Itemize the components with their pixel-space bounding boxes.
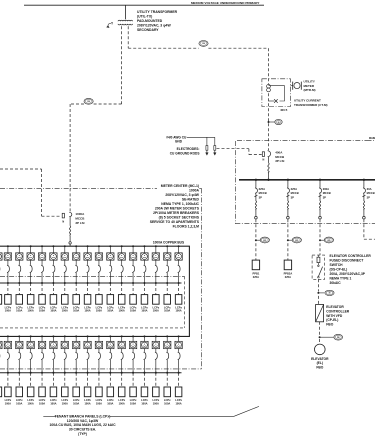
junction bottom bus tap col32 xyxy=(166,335,168,337)
wire feeder (dashed) xyxy=(166,283,168,295)
feeder tag oval xyxy=(292,237,301,243)
wire xyxy=(208,47,268,49)
main switchboard boundary bottom xyxy=(235,223,375,225)
breaker 2P/100A col28 xyxy=(121,352,123,360)
svg-text:100A: 100A xyxy=(130,401,136,405)
svg-text:(UTIL-TX): (UTIL-TX) xyxy=(137,14,152,18)
wire to elevator disconnect (dashed) xyxy=(319,243,321,255)
junction bus tap col7 xyxy=(64,245,66,247)
panel LCP8 xyxy=(73,295,80,305)
svg-text:100A: 100A xyxy=(28,309,34,313)
panel LCP17 xyxy=(175,295,182,305)
breaker 2P/100A col9 xyxy=(87,265,89,273)
boundary xyxy=(199,187,201,189)
wire xyxy=(69,217,71,226)
wire to panel (dashed) xyxy=(287,243,289,260)
wire xyxy=(75,273,77,283)
junction bus tap x=255.9 xyxy=(255,179,257,181)
wire xyxy=(255,210,257,216)
panel LCP24 xyxy=(73,387,80,397)
wire xyxy=(132,273,134,283)
neutral lug N at meter center xyxy=(62,213,64,218)
svg-text:1000A: 1000A xyxy=(75,212,85,216)
wire feeder (dashed) xyxy=(18,373,20,387)
svg-text:SWITCH: SWITCH xyxy=(330,263,344,267)
svg-text:TRANSFORMER (CT-M): TRANSFORMER (CT-M) xyxy=(294,103,328,107)
junction xyxy=(41,282,43,284)
wire xyxy=(319,210,321,216)
wire xyxy=(87,246,89,253)
meter socket M32 xyxy=(164,341,171,348)
svg-text:2P/100A METER BREAKERS: 2P/100A METER BREAKERS xyxy=(153,211,200,215)
breaker feeder 1 225A hook xyxy=(255,188,257,193)
junction xyxy=(121,372,123,374)
svg-text:UTILITY TRANSFORMER: UTILITY TRANSFORMER xyxy=(137,10,178,14)
junction bus tap col10 xyxy=(98,245,100,247)
junction xyxy=(166,372,168,374)
panel LCP6 xyxy=(50,295,57,305)
svg-text:FBO: FBO xyxy=(316,366,323,370)
feeder tag oval xyxy=(199,41,208,47)
meter socket M19 xyxy=(16,341,23,348)
meter socket M1 xyxy=(0,253,2,260)
wire xyxy=(18,260,20,265)
svg-text:FUSED DISCONNECT: FUSED DISCONNECT xyxy=(330,259,364,263)
wire xyxy=(52,260,54,265)
junction bottom bus tap col28 xyxy=(121,335,123,337)
panel LCP1 xyxy=(0,295,2,305)
svg-text:225A: 225A xyxy=(291,187,297,191)
breaker 400A MCCB hook xyxy=(268,151,271,157)
svg-text:SE-RATED: SE-RATED xyxy=(182,198,200,202)
svg-text:225A: 225A xyxy=(285,275,291,279)
wire xyxy=(18,273,20,283)
panel LCP4 xyxy=(27,295,34,305)
wire xyxy=(41,260,43,265)
svg-text:(CP-EL): (CP-EL) xyxy=(326,318,338,322)
ground rod electrode at x=206.9 xyxy=(206,146,208,151)
svg-text:30kAIC: 30kAIC xyxy=(330,281,342,285)
wire tag leader xyxy=(269,121,275,123)
wire xyxy=(121,260,123,265)
wire feeder drop (dashed) xyxy=(287,219,289,238)
svg-text:200A: 200A xyxy=(323,187,329,191)
svg-text:LCPx: LCPx xyxy=(153,398,160,402)
svg-text:LCPx: LCPx xyxy=(130,398,137,402)
breaker 2P/100A col16 xyxy=(166,265,168,273)
svg-text:LCPx: LCPx xyxy=(16,305,23,309)
wire xyxy=(206,137,208,145)
breaker 2P/100A col32 xyxy=(166,352,168,360)
svg-text:400A: 400A xyxy=(275,150,283,154)
wire tag leader xyxy=(256,239,260,241)
meter socket M2 xyxy=(4,253,11,260)
svg-text:30: 30 xyxy=(329,293,331,295)
terminal circle xyxy=(255,216,258,219)
wire xyxy=(166,273,168,283)
wire xyxy=(363,210,365,216)
wire xyxy=(18,336,20,341)
wire xyxy=(41,169,43,216)
elevator controller VFD box CP-EL xyxy=(316,305,324,322)
junction bottom bus tap col31 xyxy=(155,335,157,337)
breaker 2P/100A col15 xyxy=(155,265,157,273)
ground rod electrode at x=214.8 xyxy=(214,146,216,151)
wire (dashed) xyxy=(319,322,321,336)
svg-text:100A: 100A xyxy=(84,309,90,313)
meter socket M17 xyxy=(175,253,182,260)
meter socket M16 xyxy=(164,253,171,260)
wire xyxy=(30,349,32,352)
panel LCP17 xyxy=(0,387,2,397)
wire xyxy=(7,273,9,283)
wire tag leader xyxy=(318,292,324,294)
svg-text:100A: 100A xyxy=(73,309,79,313)
svg-text:METER: METER xyxy=(304,84,315,88)
wire xyxy=(287,210,289,216)
wire xyxy=(143,246,145,253)
wire xyxy=(178,360,180,373)
svg-text:LCPx: LCPx xyxy=(175,398,182,402)
neutral lug N at switchboard xyxy=(262,152,264,157)
junction xyxy=(18,372,20,374)
junction xyxy=(18,282,20,284)
wire xyxy=(143,273,145,283)
switch contact xyxy=(318,265,320,267)
wire xyxy=(18,246,20,253)
svg-text:FLOORS 1,2,3,M: FLOORS 1,2,3,M xyxy=(173,225,200,229)
wire xyxy=(155,273,157,283)
junction xyxy=(166,282,168,284)
wire xyxy=(178,273,180,283)
wire CT secondary xyxy=(269,86,285,101)
meter socket M20 xyxy=(27,341,34,348)
junction xyxy=(87,372,89,374)
meter socket M26 xyxy=(95,341,102,348)
wire grounding electrode conductor xyxy=(187,136,215,138)
breaker 2P/100A col14 xyxy=(144,265,146,273)
wire xyxy=(7,336,9,341)
junction xyxy=(64,372,66,374)
wire feeder (dashed) xyxy=(64,373,66,387)
junction bottom bus tap col25 xyxy=(87,335,89,337)
wire xyxy=(363,194,365,202)
wire neutral/ground bond (dashed) xyxy=(0,168,42,170)
wire feeder (dashed) xyxy=(155,373,157,387)
svg-text:MEDIUM VOLTAGE UNDERGROUND PRI: MEDIUM VOLTAGE UNDERGROUND PRIMARY xyxy=(191,1,260,5)
wire xyxy=(87,273,89,283)
junction xyxy=(75,282,77,284)
wire xyxy=(41,273,43,283)
svg-text:LCPx: LCPx xyxy=(164,305,171,309)
wire xyxy=(69,235,71,241)
junction bottom bus tap col21 xyxy=(41,335,43,337)
svg-text:3P LSI: 3P LSI xyxy=(275,159,284,163)
wire feeder (dashed) xyxy=(132,283,134,295)
breaker 2P/100A col24 xyxy=(75,352,77,360)
wire xyxy=(248,149,250,155)
svg-text:FBO: FBO xyxy=(326,323,333,327)
svg-text:100A: 100A xyxy=(107,309,113,313)
wire xyxy=(52,273,54,283)
junction xyxy=(87,282,89,284)
wire xyxy=(75,336,77,341)
utility transformer UTIL-T primary winding xyxy=(118,20,133,21)
wire feeder to main switchboard xyxy=(268,48,270,150)
wire xyxy=(87,360,89,373)
wire xyxy=(249,154,262,156)
wire feeder (dashed) xyxy=(98,373,100,387)
svg-text:225: 225 xyxy=(263,240,266,242)
wire xyxy=(109,360,111,373)
wire (dashed) xyxy=(69,188,71,212)
svg-text:(8) 5 SOCKET SECTIONS: (8) 5 SOCKET SECTIONS xyxy=(159,216,200,220)
svg-text:120: 120 xyxy=(87,101,90,103)
meter socket M11 xyxy=(107,253,114,260)
junction bus tap col5 xyxy=(41,245,43,247)
wire xyxy=(319,180,321,188)
wire xyxy=(64,349,66,352)
meter socket M5 xyxy=(38,253,45,260)
svg-text:100A: 100A xyxy=(119,309,125,313)
junction tag point xyxy=(319,239,321,241)
svg-text:MCCB: MCCB xyxy=(291,191,299,195)
svg-text:LCPx: LCPx xyxy=(118,305,125,309)
junction bus tap col6 xyxy=(52,245,54,247)
wire feeder drop (dashed) xyxy=(255,219,257,238)
svg-text:TENANT BRANCH PANELS (LCPx): TENANT BRANCH PANELS (LCPx) xyxy=(55,414,111,418)
fuse X symbol xyxy=(274,99,278,103)
svg-text:N: N xyxy=(62,221,64,224)
breaker 2P/100A col8 xyxy=(75,265,77,273)
svg-text:100A: 100A xyxy=(16,401,22,405)
tick xyxy=(319,195,322,197)
junction xyxy=(121,282,123,284)
svg-text:100A: 100A xyxy=(164,401,170,405)
junction xyxy=(52,372,54,374)
svg-text:LCPx: LCPx xyxy=(141,305,148,309)
wire feeder (dashed) xyxy=(87,373,89,387)
svg-text:LCPx: LCPx xyxy=(50,398,57,402)
breaker 2P/100A col7 xyxy=(64,265,66,273)
svg-text:100A: 100A xyxy=(164,309,170,313)
junction xyxy=(132,282,134,284)
wire xyxy=(132,246,134,253)
junction xyxy=(109,372,111,374)
breaker 2P/100A col26 xyxy=(98,352,100,360)
wire xyxy=(98,360,100,373)
wire xyxy=(52,360,54,373)
svg-text:METER CENTER (MC-1): METER CENTER (MC-1) xyxy=(161,184,199,188)
panel LCP22 xyxy=(50,387,57,397)
meter socket M30 xyxy=(141,341,148,348)
wire xyxy=(109,349,111,352)
wire (dashed) xyxy=(319,339,321,344)
leader line xyxy=(234,406,259,416)
meter socket M12 xyxy=(118,253,125,260)
svg-text:PPB1: PPB1 xyxy=(253,272,260,276)
junction xyxy=(155,282,157,284)
junction bus tap x=320.0 xyxy=(319,179,321,181)
svg-text:100A: 100A xyxy=(96,309,102,313)
svg-text:100A: 100A xyxy=(153,309,159,313)
wire xyxy=(41,246,43,253)
wire feeder (dashed) xyxy=(18,283,20,295)
svg-text:LCPx: LCPx xyxy=(39,305,46,309)
junction bottom bus tap col30 xyxy=(143,335,145,337)
svg-text:LCPx: LCPx xyxy=(107,398,114,402)
meter center boundary right xyxy=(201,188,203,369)
meter socket M24 xyxy=(72,341,79,348)
panel LCP31 xyxy=(153,387,160,397)
wire feeder (dashed) xyxy=(52,373,54,387)
junction bus tap col12 xyxy=(121,245,123,247)
svg-text:ELEVATOR: ELEVATOR xyxy=(311,357,329,361)
meter socket M28 xyxy=(118,341,125,348)
panel LCP25 xyxy=(84,387,91,397)
svg-text:MCCB: MCCB xyxy=(275,155,285,159)
breaker 2P/100A col19 xyxy=(18,352,20,360)
junction bus tap col11 xyxy=(109,245,111,247)
svg-text:225: 225 xyxy=(295,240,298,242)
svg-text:LCPx: LCPx xyxy=(118,398,125,402)
breaker 1000A trip squiggle xyxy=(69,226,70,236)
wire to panel (dashed) xyxy=(255,243,257,260)
junction bottom bus tap col18 xyxy=(7,335,9,337)
wire xyxy=(7,246,9,253)
meter socket M7 xyxy=(61,253,68,260)
junction xyxy=(52,282,54,284)
junction bottom bus tap col24 xyxy=(75,335,77,337)
meter socket M18 xyxy=(4,341,11,348)
svg-text:LCPx: LCPx xyxy=(39,398,46,402)
wire feeder (dashed) xyxy=(52,283,54,295)
svg-text:100A: 100A xyxy=(141,401,147,405)
wire feeder (dashed) xyxy=(64,283,66,295)
wire xyxy=(132,360,134,373)
svg-text:120: 120 xyxy=(202,43,205,45)
svg-text:100A: 100A xyxy=(39,309,45,313)
breaker 2P/100A col5 xyxy=(41,265,43,273)
meter center boundary top (dash-dot) xyxy=(0,187,157,189)
breaker 2P/100A col33 xyxy=(178,352,180,360)
wire feeder (dashed) xyxy=(132,373,134,387)
utility CT cabinet boundary xyxy=(262,79,291,107)
wire xyxy=(7,349,9,352)
wire xyxy=(155,360,157,373)
meter socket M31 xyxy=(152,341,159,348)
breaker 2P/100A col17 xyxy=(178,265,180,273)
panel LCP3 xyxy=(16,295,23,305)
wire feeder (dashed) xyxy=(75,373,77,387)
svg-text:SERVICE TO 40 APARTMENTS: SERVICE TO 40 APARTMENTS xyxy=(150,220,200,224)
svg-text:100A: 100A xyxy=(96,401,102,405)
utility current transformer CT-M xyxy=(267,84,271,88)
junction on feeder xyxy=(268,121,270,123)
wire feeder (dashed) xyxy=(30,373,32,387)
svg-text:208Y/120VAC, 3 φ4W: 208Y/120VAC, 3 φ4W xyxy=(165,193,199,197)
svg-text:GND: GND xyxy=(175,139,183,143)
wire feeder drop (dashed) xyxy=(319,219,321,238)
svg-text:LCPx: LCPx xyxy=(5,398,12,402)
junction xyxy=(109,282,111,284)
breaker 400A trip squiggle xyxy=(268,163,269,173)
tick xyxy=(286,195,289,197)
panel PPB2A xyxy=(284,260,291,270)
junction bus tap col16 xyxy=(166,245,168,247)
wire tag leader xyxy=(288,239,292,241)
panel LCP12 xyxy=(118,295,125,305)
wire xyxy=(52,349,54,352)
junction tag point xyxy=(319,336,321,338)
svg-text:100A: 100A xyxy=(62,401,68,405)
svg-text:100A: 100A xyxy=(175,309,181,313)
svg-text:30A: 30A xyxy=(367,187,372,191)
wire xyxy=(64,360,66,373)
breaker 2P/100A col11 xyxy=(109,265,111,273)
panel LCP21 xyxy=(39,387,46,397)
svg-text:(DS-CP-EL): (DS-CP-EL) xyxy=(330,268,348,272)
junction xyxy=(178,282,180,284)
svg-text:MCCB: MCCB xyxy=(367,191,375,195)
wire xyxy=(214,137,216,145)
panel LCP10 xyxy=(96,295,103,305)
panel LCP19 xyxy=(16,387,23,397)
wire xyxy=(98,336,100,341)
junction xyxy=(30,372,32,374)
wire xyxy=(7,260,9,265)
junction xyxy=(178,372,180,374)
panel LCP28 xyxy=(118,387,125,397)
panel LCP7 xyxy=(62,295,69,305)
wire xyxy=(287,180,289,188)
meter socket M6 xyxy=(50,253,57,260)
junction bottom bus tap col26 xyxy=(98,335,100,337)
wire xyxy=(64,246,66,253)
svg-text:225: 225 xyxy=(327,240,330,242)
svg-text:LCPx: LCPx xyxy=(107,305,114,309)
junction xyxy=(64,282,66,284)
breaker 2P/100A col27 xyxy=(109,352,111,360)
panel LCP11 xyxy=(107,295,114,305)
terminal circle xyxy=(69,242,71,244)
svg-text:100A: 100A xyxy=(50,401,56,405)
terminal circle xyxy=(287,216,290,219)
breaker 2P/100A col12 xyxy=(121,265,123,273)
svg-text:MAIN: MAIN xyxy=(369,137,375,140)
junction bottom bus tap col19 xyxy=(18,335,20,337)
svg-text:100A CU BUS, 100A MAIN LUGS, 2: 100A CU BUS, 100A MAIN LUGS, 22 kAIC xyxy=(49,423,116,427)
svg-text:3P: 3P xyxy=(259,196,262,200)
junction bottom bus tap col20 xyxy=(30,335,32,337)
wire feeder (dashed) xyxy=(121,283,123,295)
breaker feeder 4 30A hook xyxy=(363,188,365,193)
junction bottom bus tap col29 xyxy=(132,335,134,337)
junction bus tap col15 xyxy=(155,245,157,247)
svg-text:LCPx: LCPx xyxy=(73,398,80,402)
svg-text:120/208 VAC, 1φ3W: 120/208 VAC, 1φ3W xyxy=(67,419,99,423)
wire xyxy=(166,260,168,265)
junction xyxy=(155,372,157,374)
panel LCP27 xyxy=(107,387,114,397)
svg-text:LCPx: LCPx xyxy=(61,398,68,402)
svg-text:LCPx: LCPx xyxy=(96,305,103,309)
svg-text:100A: 100A xyxy=(5,309,11,313)
wire xyxy=(30,246,32,253)
wire xyxy=(98,246,100,253)
panel LCP23 xyxy=(62,387,69,397)
meter socket M22 xyxy=(50,341,57,348)
